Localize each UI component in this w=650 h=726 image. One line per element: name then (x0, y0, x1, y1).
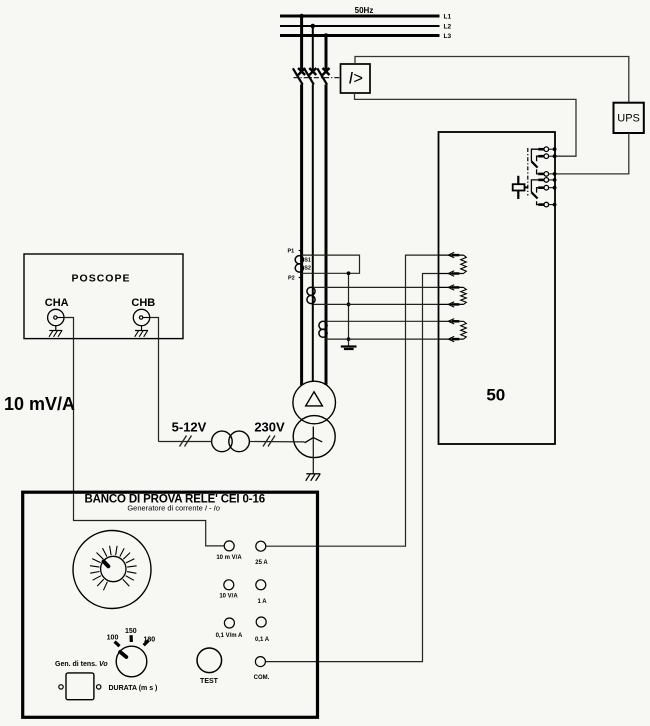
svg-text:100: 100 (107, 634, 119, 641)
bus line L3 (280, 34, 440, 37)
DURATA knob pointer (120, 652, 126, 657)
relay current coil 1 (439, 252, 467, 276)
junction node on L3 (324, 33, 329, 38)
CT1 secondary loop wire (302, 255, 360, 273)
relay coil K (513, 184, 525, 190)
relay coil K top lead (517, 176, 519, 184)
wire phase 2 upper (312, 26, 314, 71)
svg-text:P1: P1 (288, 249, 295, 255)
transformer TV delta winding circle (293, 381, 336, 424)
svg-text:50Hz: 50Hz (355, 6, 374, 15)
junction dot riser top (347, 271, 351, 275)
wire phase 1 lower (300, 85, 303, 386)
P1 tick (299, 250, 301, 252)
svg-text:P2: P2 (288, 276, 295, 282)
SECTION: breaker and I> relay (293, 57, 629, 157)
BNC CHB ground stem (141, 326, 143, 331)
terminal COM (255, 657, 265, 667)
changeover contact group 2 blade (531, 192, 537, 198)
svg-text:0,1 V/m A: 0,1 V/m A (216, 633, 243, 639)
wire phase 1 upper (300, 16, 303, 71)
TEST button (197, 648, 222, 673)
bus line L1 (280, 15, 440, 18)
relay coil K bottom lead (517, 191, 519, 200)
svg-text:S2: S2 (304, 265, 311, 271)
DURATA tick 150 (130, 635, 133, 642)
BNC CHA ground stem (55, 326, 57, 331)
transformer TV wye winding circle (293, 416, 335, 458)
SECTION: transformers (159, 381, 336, 481)
Vo square side circle right (97, 685, 101, 689)
wire phase 3 lower (325, 85, 328, 385)
riser B wire to COM (266, 274, 439, 662)
ground symbol wye (306, 474, 321, 481)
terminal 25 A (256, 541, 266, 551)
DURATA tick 180 (144, 640, 149, 645)
circuit breaker CB pole 2 X mark (309, 68, 316, 75)
CT3 wire S2 (326, 338, 439, 340)
SECTION: top three-phase bus (280, 6, 451, 385)
svg-text:COM.: COM. (254, 675, 270, 681)
wire I> bottom to relay contact (355, 93, 577, 156)
CT2 circles (307, 287, 315, 295)
svg-text:L2: L2 (444, 24, 452, 31)
circuit breaker CB pole 1 blade (293, 68, 303, 84)
wye symbol (305, 427, 323, 443)
Vo generator square (66, 673, 94, 700)
relay box 50 (439, 132, 556, 444)
wire UPS bottom to relay contact (556, 133, 629, 174)
CT1 ground riser (348, 273, 350, 346)
contact terminal stub 3 (538, 172, 556, 177)
bus line L2 (280, 25, 440, 27)
BNC connector CHA (48, 309, 64, 325)
changeover contact group 2 fixed hook upper (537, 188, 539, 193)
BNC connector CHB (133, 309, 149, 325)
double slash left (180, 436, 192, 447)
CT1 circles (295, 256, 303, 264)
wire phase 3 upper (325, 36, 328, 71)
svg-text:L1: L1 (444, 14, 452, 21)
SECTION: poscope (4, 254, 224, 546)
relay current coil 3 (439, 319, 467, 342)
terminal 10 mV/A (224, 541, 234, 551)
terminal 0,1 A (256, 617, 266, 627)
SECTION: relay box 50 (439, 132, 557, 444)
Vo square side circle left (59, 685, 63, 689)
wire CHB to 5-12V transformer (150, 318, 159, 442)
circuit breaker CB pole 3 X mark (323, 68, 330, 75)
svg-text:DURATA (m s ): DURATA (m s ) (109, 685, 158, 692)
CT3 wire S1 (326, 320, 439, 322)
main current knob outer (73, 531, 151, 609)
svg-text:10 V/A: 10 V/A (219, 594, 238, 600)
junction dot riser CT3 (347, 337, 351, 341)
svg-text:0,1 A: 0,1 A (255, 637, 270, 643)
wire 5-12V (159, 441, 212, 443)
op relay I> box (341, 64, 371, 93)
changeover contact group 2 common feed (531, 180, 538, 192)
svg-text:TEST: TEST (200, 678, 219, 685)
SECTION: UPS (556, 103, 644, 174)
junction node on L2 (311, 24, 316, 29)
svg-text:UPS: UPS (617, 113, 640, 125)
UPS box (614, 103, 644, 133)
contact terminal stub 1 (538, 147, 556, 152)
relay current coil 2 (439, 285, 467, 307)
svg-text:1 A: 1 A (257, 599, 267, 605)
chassis ground CHB (135, 331, 148, 337)
svg-text:50: 50 (486, 386, 505, 405)
svg-text:CHA: CHA (45, 297, 69, 309)
circuit breaker CB pole 2 blade (304, 68, 314, 84)
isolating transformer T1 circle left (212, 431, 233, 452)
main knob pointer (104, 561, 109, 566)
terminal 0,1 V/m A (224, 618, 234, 628)
changeover contact group 1 blade (531, 161, 537, 167)
SECTION: CTs (266, 249, 439, 662)
DURATA knob (116, 646, 147, 677)
test set BANCO box (23, 492, 318, 717)
svg-text:CHB: CHB (131, 297, 155, 309)
CT3 circles (319, 321, 327, 329)
svg-text:10 m V/A: 10 m V/A (216, 555, 242, 561)
CT2 wire S1 (313, 286, 438, 288)
SECTION: banco (23, 492, 318, 717)
changeover contact group 1 fixed hook upper (537, 156, 539, 161)
svg-text:S1: S1 (304, 258, 311, 264)
svg-text:5-12V: 5-12V (172, 420, 207, 435)
terminal 10 V/A (224, 580, 234, 590)
P2 tick (299, 277, 301, 279)
circuit breaker CB pole 1 X mark (298, 68, 305, 75)
svg-text:180: 180 (143, 637, 155, 644)
main knob spokes (90, 546, 137, 591)
svg-text:Gen. di tens. Vo: Gen. di tens. Vo (55, 661, 108, 668)
junction node on L1 (299, 14, 304, 19)
circuit breaker CB pole 3 blade (317, 68, 327, 84)
changeover contact group 2 fixed hook lower (537, 201, 539, 204)
main current knob inner (101, 556, 126, 581)
contact terminal stub 5 (538, 185, 556, 190)
junction dot riser CT2 (347, 303, 351, 307)
contact terminal stub 4 (538, 178, 556, 183)
isolating transformer T1 circle right (229, 431, 250, 452)
oscilloscope POSCOPE box (24, 254, 183, 339)
contact terminal stub 2 (538, 154, 556, 159)
wye neutral wire to ground (312, 438, 314, 474)
contact terminal stub 6 (538, 202, 556, 207)
chassis ground CHA (49, 331, 62, 337)
breaker mechanical linkage dash-dot (294, 77, 341, 79)
wire I> top to UPS (355, 57, 629, 103)
relay coil K link stub (525, 186, 528, 188)
ground symbol CT (341, 347, 357, 350)
wire 230V (249, 441, 304, 443)
double slash right (263, 436, 275, 447)
DURATA tick 100 (115, 642, 120, 647)
terminal 1 A (256, 580, 266, 590)
svg-text:Generatore di corrente I - Io: Generatore di corrente I - Io (127, 504, 220, 513)
changeover contact group 1 fixed hook lower (537, 169, 539, 174)
wire phase 2 lower (312, 85, 314, 382)
svg-text:L3: L3 (444, 33, 452, 40)
delta symbol (306, 392, 323, 406)
riser A wire to 25A (266, 255, 439, 546)
svg-text:I>: I> (349, 70, 364, 88)
svg-text:150: 150 (125, 628, 137, 635)
changeover contact group 1 common feed (531, 149, 538, 161)
wire CHA to 10mV/A terminal (64, 318, 224, 546)
svg-text:25 A: 25 A (255, 560, 268, 566)
svg-text:10 mV/A: 10 mV/A (4, 394, 75, 414)
svg-text:230V: 230V (254, 420, 285, 435)
mechanical link dash-dot (527, 148, 529, 196)
svg-text:POSCOPE: POSCOPE (72, 272, 131, 284)
CT2 wire S2 (313, 303, 438, 305)
